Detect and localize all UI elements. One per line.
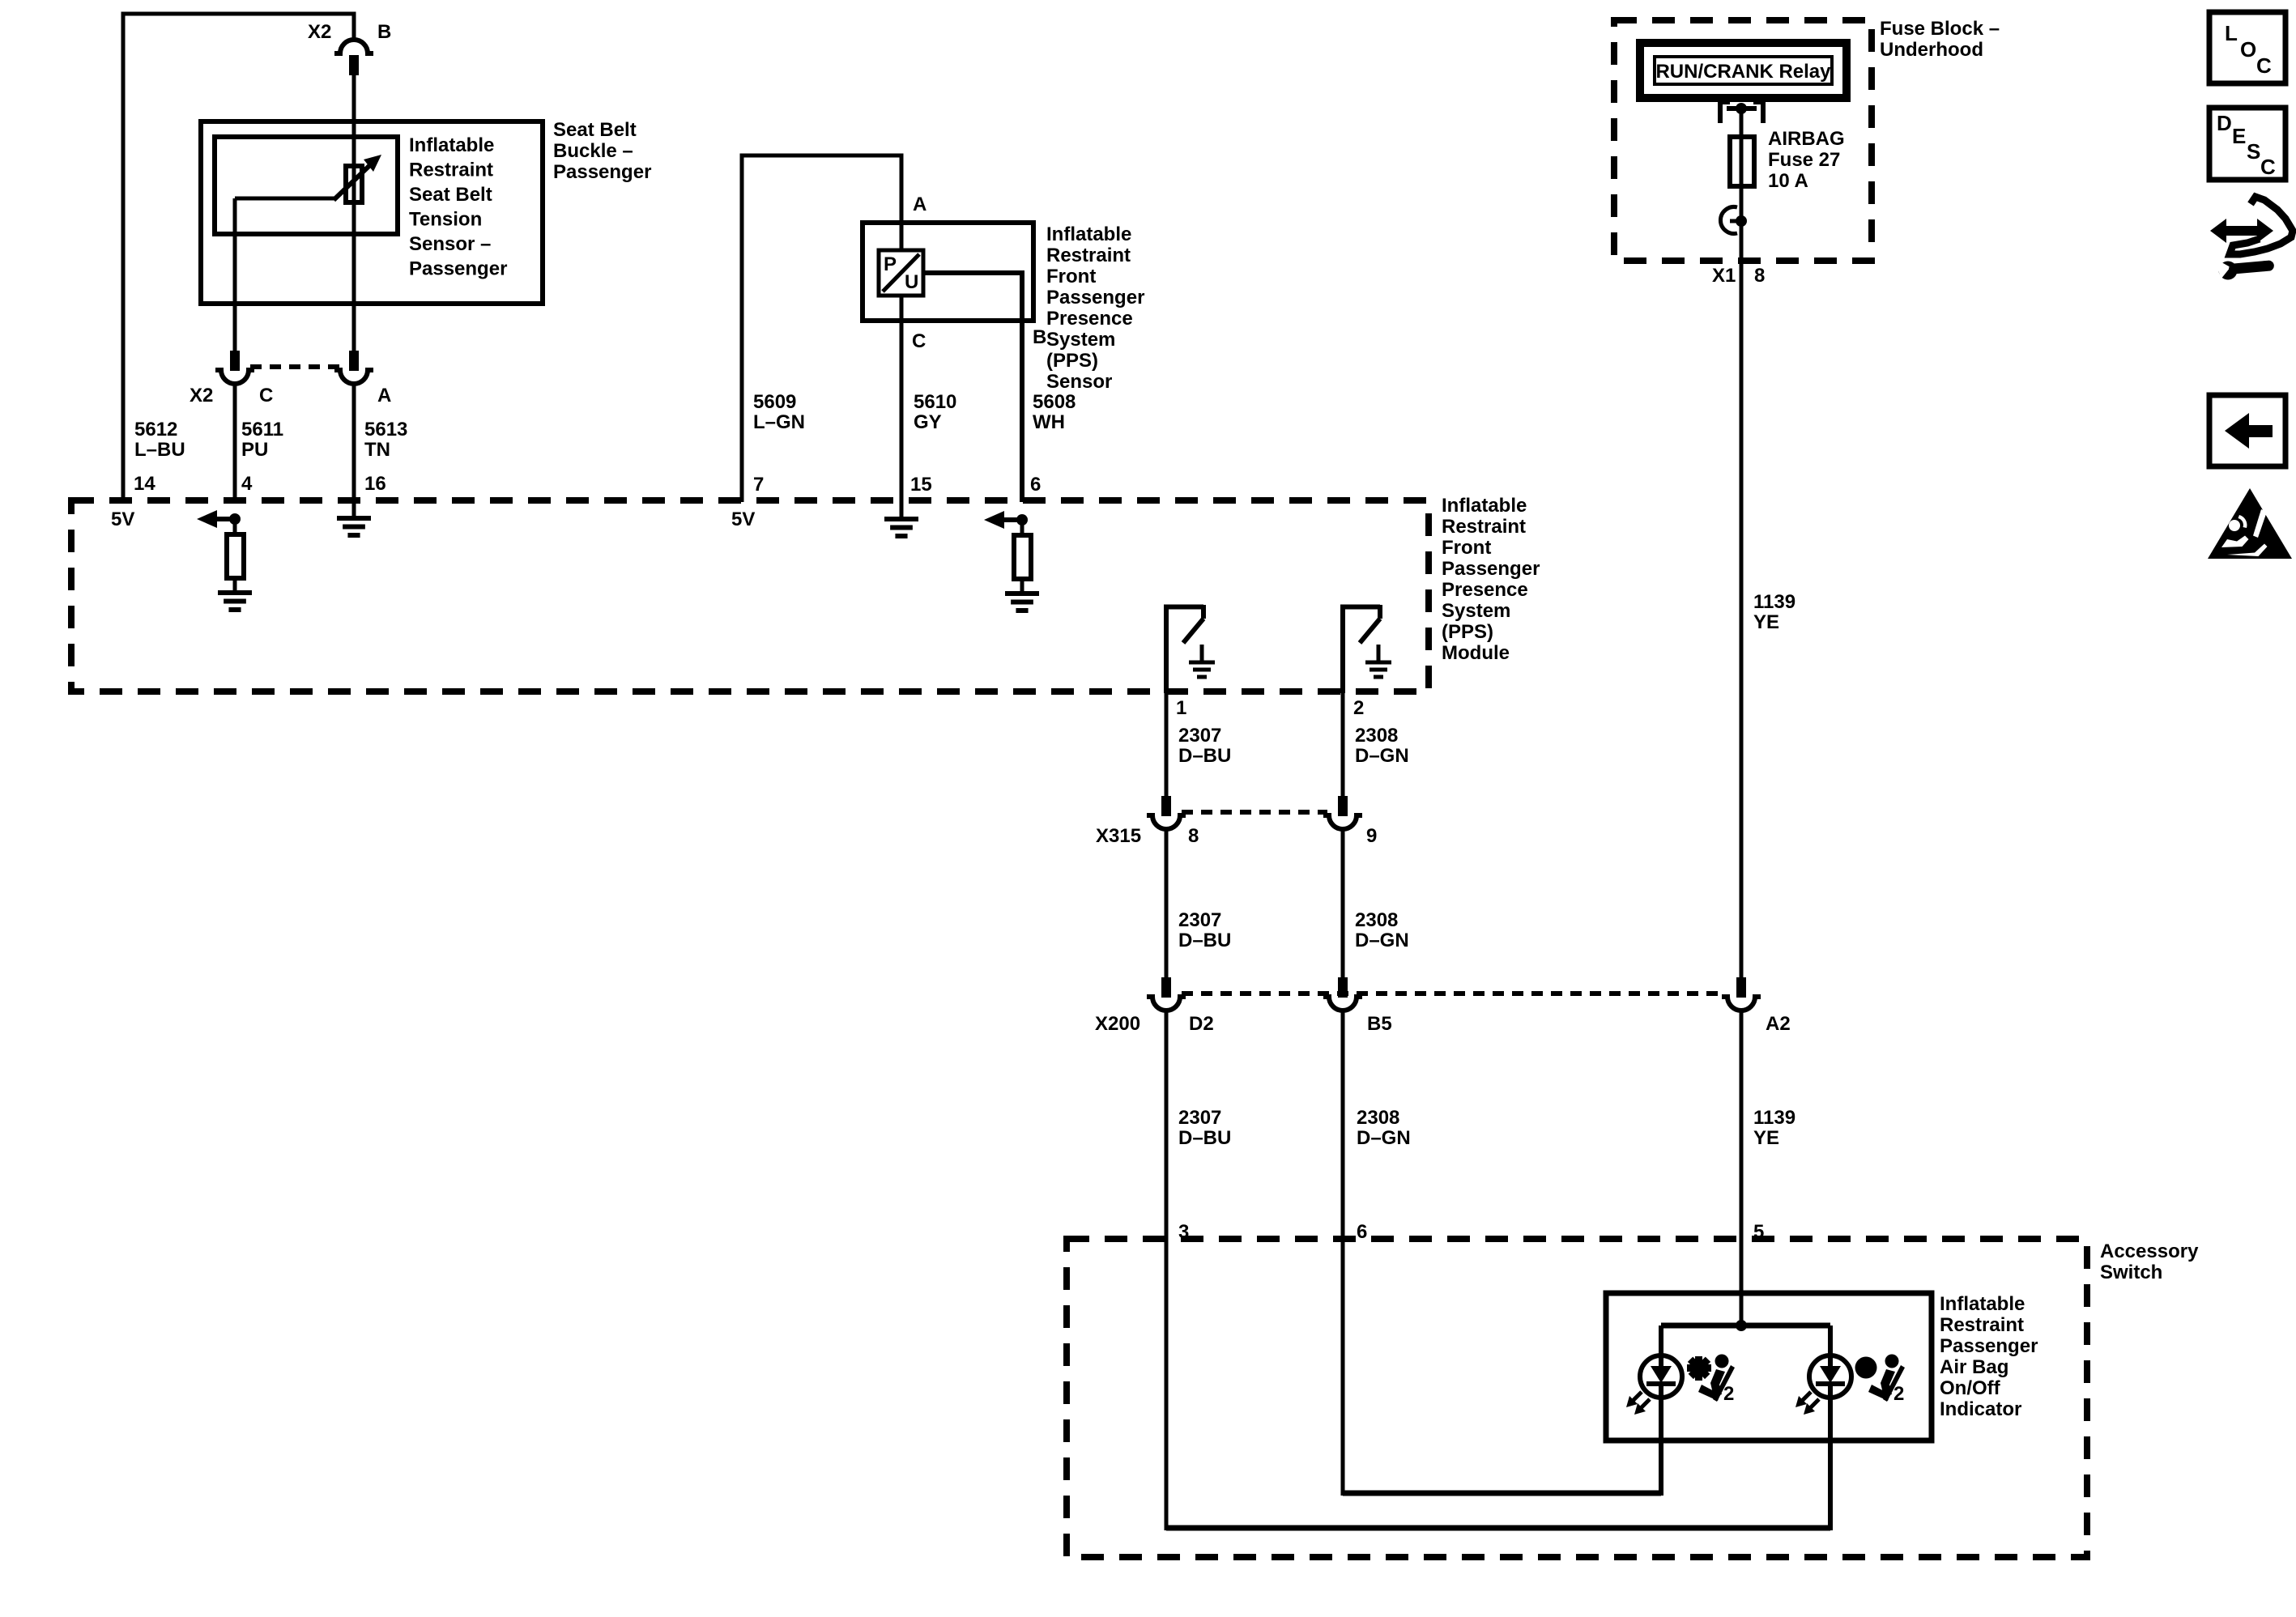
wire - 5V loop horizontal PPS (742, 154, 901, 158)
resistor - pull-up on pin 4 (233, 519, 237, 534)
svg-text:4: 4 (241, 473, 253, 495)
svg-text:L–BU: L–BU (134, 439, 185, 461)
connector X2 pin B terminal (349, 55, 359, 75)
svg-text:Passenger: Passenger (409, 258, 507, 280)
svg-text:1139: 1139 (1753, 1107, 1795, 1129)
svg-text:RUN/CRANK Relay: RUN/CRANK Relay (1655, 61, 1831, 83)
wire - left LED branch (1659, 1326, 1663, 1496)
svg-text:Front: Front (1046, 266, 1096, 287)
svg-text:5612: 5612 (134, 419, 177, 440)
svg-text:Passenger: Passenger (1046, 287, 1144, 309)
ground - module pin 16 (352, 500, 356, 518)
wire - PPS sensor pin B vertical to module pin 6 (1020, 270, 1024, 502)
icon airbag warning triangle (2208, 488, 2292, 559)
svg-text:2: 2 (1723, 1383, 1734, 1405)
connector X200 pin B5 arc (1323, 997, 1362, 1011)
LED 1 emission arrows (1631, 1392, 1642, 1402)
wire - X200 D2 to indicator (1165, 1010, 1169, 1530)
svg-text:Inflatable: Inflatable (1046, 223, 1131, 245)
svg-text:5608: 5608 (1033, 391, 1076, 413)
svg-text:Switch: Switch (2100, 1262, 2162, 1283)
svg-text:Seat Belt: Seat Belt (553, 119, 637, 141)
svg-text:Indicator: Indicator (1940, 1398, 2021, 1420)
svg-text:Fuse Block –: Fuse Block – (1880, 18, 2000, 40)
svg-text:2: 2 (1353, 697, 1364, 719)
wire - X200 A2 to indicator pin 5 (1740, 1010, 1744, 1328)
svg-text:On/Off: On/Off (1940, 1377, 2001, 1399)
wire - pin C to module pin 4 (233, 383, 237, 502)
connector X2 pin B arc (334, 40, 373, 53)
relay output terminal bracket (1720, 100, 1730, 104)
svg-text:O: O (2240, 37, 2256, 62)
svg-text:(PPS): (PPS) (1442, 621, 1493, 643)
wire - left vertical to module pin 7 (740, 154, 744, 503)
wire - X200 B5 to indicator (1341, 1010, 1345, 1496)
svg-text:Tension: Tension (409, 209, 482, 231)
connector X2 C-A dashed link (250, 364, 339, 369)
fuse block underhood dashed box (1614, 20, 1872, 261)
svg-text:Accessory: Accessory (2100, 1240, 2199, 1262)
icon LOC box (2209, 12, 2285, 83)
svg-text:5V: 5V (111, 509, 134, 530)
svg-text:2: 2 (1893, 1383, 1904, 1405)
svg-text:Underhood: Underhood (1880, 39, 1983, 61)
PPS sensor box (863, 223, 1033, 321)
connector X200 pin A2 terminal (1736, 977, 1746, 998)
connector X315 pin 9 terminal (1338, 796, 1348, 816)
svg-text:5611: 5611 (241, 419, 283, 440)
connector X315 dashed link (1182, 810, 1327, 815)
svg-text:16: 16 (364, 473, 386, 495)
svg-text:Inflatable: Inflatable (409, 134, 494, 156)
connector X2 pin C terminal (230, 351, 240, 371)
svg-text:B5: B5 (1367, 1013, 1392, 1035)
svg-text:D: D (2217, 111, 2232, 135)
ground - below pin 6 resistor (1020, 579, 1024, 594)
svg-text:Sensor –: Sensor – (409, 233, 491, 255)
node - pin 6 junction with arrow (1016, 514, 1028, 526)
tension sensor inner box (215, 137, 398, 234)
svg-text:6: 6 (1030, 474, 1041, 496)
variable resistor arrow (334, 161, 374, 200)
svg-text:YE: YE (1753, 1127, 1779, 1149)
svg-text:A: A (913, 194, 926, 215)
svg-text:15: 15 (910, 474, 932, 496)
svg-text:2307: 2307 (1178, 909, 1221, 931)
wire - indicator common top bus (1661, 1323, 1830, 1329)
svg-text:6: 6 (1357, 1221, 1367, 1243)
node - A2 wire junction on bus (1736, 1320, 1747, 1331)
connector X200 pin D2 terminal (1161, 977, 1171, 998)
svg-text:Restraint: Restraint (1046, 245, 1131, 266)
svg-text:Passenger: Passenger (1442, 558, 1540, 580)
icon - passenger airbag on (1855, 1355, 1906, 1402)
svg-text:D–BU: D–BU (1178, 1127, 1231, 1149)
wire - D2 branch to right LED bottom (1166, 1526, 1830, 1531)
svg-text:D–GN: D–GN (1355, 930, 1409, 951)
connector X315 pin 8 arc (1147, 815, 1186, 829)
svg-text:Inflatable: Inflatable (1940, 1293, 2025, 1315)
svg-text:5610: 5610 (914, 391, 956, 413)
svg-text:L: L (2225, 21, 2238, 45)
svg-text:B: B (377, 21, 391, 43)
wire - relay through fuse to X200 A2 (1139 YE) (1740, 109, 1744, 978)
switch 2 to ground in module (1340, 605, 1345, 693)
svg-text:AIRBAG: AIRBAG (1768, 128, 1845, 150)
in-line connector hook below fuse (1720, 207, 1737, 234)
connector X2 pin A terminal (349, 351, 359, 371)
wire - B5 branch to left LED bottom (1343, 1491, 1661, 1496)
wire - pin 2 to X315 pin 9 (1341, 693, 1345, 797)
RUN/CRANK Relay box (1640, 43, 1847, 98)
svg-text:X1: X1 (1712, 265, 1736, 287)
svg-text:C: C (2256, 53, 2272, 78)
svg-text:8: 8 (1754, 265, 1765, 287)
svg-text:2307: 2307 (1178, 1107, 1221, 1129)
svg-text:WH: WH (1033, 411, 1065, 433)
svg-text:7: 7 (753, 474, 764, 496)
svg-text:D2: D2 (1189, 1013, 1214, 1035)
LED 1 (airbag off indicator) (1640, 1355, 1682, 1398)
node - relay output junction (1736, 103, 1747, 114)
svg-text:5609: 5609 (753, 391, 796, 413)
svg-text:Presence: Presence (1046, 308, 1133, 330)
connector X315 pin 9 arc (1323, 815, 1362, 829)
svg-text:10 A: 10 A (1768, 170, 1808, 192)
wire - 5V feed loop top horizontal (123, 12, 354, 16)
node - pin 4 junction with arrow (229, 513, 241, 525)
accessory switch dashed box (1067, 1239, 2087, 1557)
svg-text:9: 9 (1366, 825, 1377, 847)
svg-text:PU: PU (241, 439, 268, 461)
resistor - pull-up on pin 6 (1020, 520, 1024, 535)
svg-text:X200: X200 (1095, 1013, 1140, 1035)
svg-text:5V: 5V (731, 509, 755, 530)
node - connector junction dot (1736, 215, 1747, 227)
svg-text:X2: X2 (190, 385, 213, 406)
svg-text:L–GN: L–GN (753, 411, 805, 433)
seat belt buckle outer box (201, 121, 543, 304)
PPS module dashed box (71, 500, 1429, 691)
svg-text:B: B (1033, 326, 1046, 348)
svg-text:GY: GY (914, 411, 942, 433)
svg-text:1: 1 (1176, 697, 1186, 719)
svg-text:2308: 2308 (1355, 725, 1398, 747)
icon - passenger airbag off (crossed) (1687, 1355, 1735, 1402)
svg-text:X315: X315 (1096, 825, 1141, 847)
svg-text:Sensor: Sensor (1046, 371, 1112, 393)
pressure transducer P/U symbol (879, 250, 923, 296)
svg-text:2308: 2308 (1355, 909, 1398, 931)
svg-text:Passenger: Passenger (553, 161, 651, 183)
wire - left inner vertical to connector X2 pin C (233, 198, 237, 351)
svg-text:C: C (2260, 155, 2276, 179)
LED 2 (airbag on indicator) (1809, 1355, 1851, 1398)
svg-text:Restraint: Restraint (1442, 516, 1526, 538)
wire - pin 1 to X315 pin 8 (1165, 693, 1169, 797)
variable resistor body (346, 166, 362, 202)
svg-text:D–BU: D–BU (1178, 930, 1231, 951)
wire - into seat belt buckle to tension sensor (352, 74, 356, 351)
wire - pin A to module pin 16 (352, 383, 356, 502)
svg-text:Restraint: Restraint (409, 160, 493, 181)
svg-text:8: 8 (1188, 825, 1199, 847)
connector X200 pin D2 arc (1147, 997, 1186, 1011)
wire - X315 9 to X200 B5 (1341, 828, 1345, 978)
svg-text:D–BU: D–BU (1178, 745, 1231, 767)
wire - down to connector X2 pin B (352, 12, 356, 41)
svg-text:Fuse 27: Fuse 27 (1768, 149, 1840, 171)
svg-text:TN: TN (364, 439, 390, 461)
svg-text:Restraint: Restraint (1940, 1314, 2024, 1336)
svg-text:System: System (1442, 600, 1510, 622)
svg-text:1139: 1139 (1753, 591, 1795, 613)
svg-text:Front: Front (1442, 537, 1491, 559)
svg-text:System: System (1046, 329, 1115, 351)
switch 1 to ground in module (1164, 605, 1169, 693)
svg-text:D–GN: D–GN (1355, 745, 1409, 767)
svg-text:5613: 5613 (364, 419, 407, 440)
svg-text:2308: 2308 (1357, 1107, 1399, 1129)
connector X2 pin A arc (334, 370, 373, 384)
svg-text:C: C (912, 330, 926, 352)
wire - PPS sensor pin A vertical (900, 154, 904, 503)
connector X200 pin B5 terminal (1338, 977, 1348, 998)
svg-text:Presence: Presence (1442, 579, 1528, 601)
wire - left vertical to module pin 14 (121, 12, 126, 503)
svg-text:(PPS): (PPS) (1046, 350, 1098, 372)
icon back arrow box (2209, 395, 2285, 466)
ground - module pin 15 (900, 500, 904, 519)
fuse AIRBAG Fuse 27 10A (1730, 137, 1754, 186)
connector X315 pin 8 terminal (1161, 796, 1171, 816)
svg-text:A: A (377, 385, 391, 406)
svg-text:S: S (2247, 139, 2260, 164)
svg-text:Air Bag: Air Bag (1940, 1356, 2008, 1378)
svg-text:X2: X2 (308, 21, 331, 43)
svg-text:14: 14 (134, 473, 155, 495)
ground - below pin 4 resistor (233, 578, 237, 593)
svg-text:A2: A2 (1766, 1013, 1791, 1035)
connector X200 dashed link (1182, 991, 1726, 996)
svg-text:Module: Module (1442, 642, 1510, 664)
svg-text:P: P (884, 253, 897, 275)
svg-text:D–GN: D–GN (1357, 1127, 1411, 1149)
indicator outer box (1606, 1293, 1932, 1440)
icon DESC box (2209, 108, 2285, 180)
svg-text:2307: 2307 (1178, 725, 1221, 747)
wire - right LED branch (1828, 1326, 1833, 1530)
svg-text:E: E (2232, 124, 2246, 148)
svg-text:Passenger: Passenger (1940, 1335, 2038, 1357)
icon schematic navigation arrows and wrench (2230, 197, 2293, 254)
connector X200 pin A2 arc (1722, 997, 1761, 1011)
connector X2 pin C arc (215, 370, 254, 384)
LED 2 emission arrows (1800, 1392, 1811, 1402)
svg-text:C: C (259, 385, 273, 406)
wire - X315 8 to X200 D2 (1165, 828, 1169, 978)
svg-text:Seat Belt: Seat Belt (409, 184, 492, 206)
wire - P/U output horizontal (923, 270, 1022, 275)
wire - sensor wiper horizontal (235, 197, 336, 201)
svg-text:Buckle –: Buckle – (553, 140, 633, 162)
svg-text:YE: YE (1753, 611, 1779, 633)
svg-text:Inflatable: Inflatable (1442, 495, 1527, 517)
svg-text:U: U (905, 271, 918, 293)
